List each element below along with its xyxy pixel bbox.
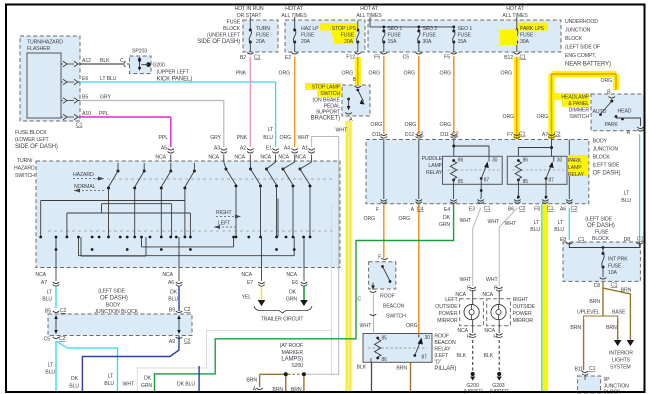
- svg-text:C2: C2: [519, 206, 526, 212]
- svg-text:ORG: ORG: [364, 216, 376, 222]
- svg-text:LT BLU: LT BLU: [100, 76, 117, 82]
- svg-text:OF DASH): OF DASH): [587, 223, 615, 229]
- svg-text:BRACKET): BRACKET): [311, 116, 340, 122]
- svg-text:30: 30: [557, 158, 563, 164]
- svg-text:C8: C8: [594, 283, 601, 289]
- svg-text:LAMP: LAMP: [568, 165, 582, 171]
- svg-text:NCA: NCA: [286, 272, 297, 278]
- svg-text:F5: F5: [374, 55, 380, 61]
- svg-text:PILLAR): PILLAR): [434, 366, 456, 372]
- svg-text:GRN: GRN: [439, 222, 451, 228]
- svg-text:MIRROR: MIRROR: [437, 318, 458, 324]
- svg-text:LT: LT: [558, 220, 564, 226]
- svg-text:FUSE: FUSE: [301, 33, 315, 39]
- svg-text:15A: 15A: [388, 39, 398, 45]
- svg-text:BRN: BRN: [246, 378, 257, 384]
- svg-text:PARK: PARK: [605, 122, 619, 128]
- svg-text:LT: LT: [108, 374, 114, 380]
- svg-text:LT: LT: [48, 363, 54, 369]
- svg-text:DK: DK: [289, 290, 297, 296]
- svg-text:BEACON: BEACON: [383, 304, 405, 310]
- svg-text:E6: E6: [82, 76, 88, 82]
- svg-text:LT: LT: [534, 220, 540, 226]
- svg-text:ALL TIMES: ALL TIMES: [356, 13, 382, 19]
- svg-text:F: F: [494, 286, 497, 292]
- svg-text:SEO 2: SEO 2: [423, 26, 438, 32]
- svg-text:B2: B2: [240, 55, 246, 61]
- svg-text:TURN/HAZARD: TURN/HAZARD: [27, 40, 63, 46]
- svg-text:ORG: ORG: [405, 122, 417, 128]
- svg-text:C1: C1: [578, 237, 585, 243]
- svg-text:D12: D12: [405, 132, 414, 138]
- svg-text:G200: G200: [153, 63, 165, 69]
- svg-text:A1: A1: [302, 146, 308, 152]
- svg-text:HAZ LP: HAZ LP: [301, 26, 319, 32]
- svg-text:FLASHER: FLASHER: [27, 46, 50, 52]
- svg-text:E2: E2: [285, 55, 291, 61]
- svg-text:ALL TIMES: ALL TIMES: [281, 13, 307, 19]
- svg-text:ALL TIMES: ALL TIMES: [502, 13, 528, 19]
- svg-text:TURN/: TURN/: [17, 158, 33, 164]
- svg-text:BLOCK: BLOCK: [593, 155, 611, 161]
- svg-text:FUSE BLOCK: FUSE BLOCK: [15, 130, 47, 136]
- svg-text:AUTO: AUTO: [593, 109, 607, 115]
- svg-text:B5: B5: [82, 95, 88, 101]
- svg-text:E6: E6: [292, 280, 298, 286]
- svg-text:HOT IN RUN: HOT IN RUN: [235, 6, 264, 12]
- svg-text:HEADLAMP: HEADLAMP: [561, 95, 589, 101]
- svg-text:C1: C1: [520, 55, 527, 61]
- svg-text:E3: E3: [469, 207, 475, 213]
- svg-text:NCA: NCA: [155, 155, 166, 161]
- svg-text:NCA: NCA: [295, 155, 306, 161]
- svg-text:FUSE: FUSE: [388, 33, 402, 39]
- svg-text:10A: 10A: [608, 270, 618, 276]
- svg-text:B9: B9: [169, 308, 175, 314]
- svg-text:ORG: ORG: [279, 71, 291, 77]
- svg-text:E1: E1: [266, 146, 272, 152]
- svg-text:UNDERHOOD: UNDERHOOD: [565, 19, 598, 25]
- svg-text:30A: 30A: [423, 39, 433, 45]
- svg-text:D11: D11: [440, 132, 449, 138]
- svg-text:B6: B6: [508, 207, 514, 213]
- svg-text:(LEFT SIDE: (LEFT SIDE: [585, 217, 612, 223]
- svg-text:A3: A3: [214, 146, 220, 152]
- svg-text:C2: C2: [554, 132, 561, 138]
- svg-text:GRN: GRN: [141, 383, 153, 389]
- svg-text:HOT AT: HOT AT: [285, 6, 303, 12]
- svg-text:85: 85: [458, 179, 464, 185]
- svg-text:RIGHT: RIGHT: [216, 210, 232, 216]
- svg-text:GRN: GRN: [286, 297, 298, 303]
- svg-text:SWITCH: SWITCH: [386, 314, 406, 320]
- svg-text:NEAR BATTERY): NEAR BATTERY): [565, 62, 611, 68]
- svg-text:C2: C2: [571, 206, 578, 212]
- svg-text:I/P: I/P: [604, 377, 611, 383]
- svg-text:LT: LT: [624, 191, 630, 197]
- svg-text:BLU: BLU: [168, 297, 178, 303]
- svg-text:RELAY: RELAY: [426, 170, 443, 176]
- svg-text:E4: E4: [444, 207, 450, 213]
- svg-text:BLOCK: BLOCK: [565, 36, 583, 42]
- svg-text:H: H: [493, 334, 497, 340]
- svg-text:SIDE OF DASH): SIDE OF DASH): [15, 144, 58, 150]
- svg-text:WHT: WHT: [460, 277, 472, 283]
- svg-text:RIGHT: RIGHT: [513, 297, 529, 303]
- svg-text:20A: 20A: [301, 39, 311, 45]
- svg-text:OUTSIDE: OUTSIDE: [513, 304, 536, 310]
- svg-text:C1: C1: [519, 132, 526, 138]
- svg-text:BRN: BRN: [396, 366, 407, 372]
- svg-text:WHT: WHT: [488, 219, 500, 225]
- svg-text:NCA: NCA: [278, 155, 289, 161]
- svg-text:A2: A2: [240, 146, 246, 152]
- svg-text:SWITCH: SWITCH: [320, 91, 340, 97]
- svg-text:NCA: NCA: [482, 292, 493, 298]
- svg-text:87: 87: [484, 178, 490, 184]
- svg-text:20A: 20A: [344, 39, 354, 45]
- svg-text:F7: F7: [507, 132, 513, 138]
- svg-text:(LEFT SIDE: (LEFT SIDE: [593, 163, 620, 169]
- svg-text:FUSE: FUSE: [256, 33, 270, 39]
- svg-text:C1: C1: [637, 237, 644, 243]
- svg-text:ORG: ORG: [537, 114, 549, 120]
- svg-text:HAZARD: HAZARD: [14, 166, 35, 172]
- svg-text:ENG COMPT,: ENG COMPT,: [565, 53, 596, 59]
- svg-text:ROOF: ROOF: [380, 294, 395, 300]
- svg-text:(UPPER LEFT: (UPPER LEFT: [157, 70, 190, 76]
- svg-text:HAZARD: HAZARD: [73, 172, 94, 178]
- svg-text:B11: B11: [575, 367, 584, 373]
- svg-text:HOT AT: HOT AT: [360, 6, 378, 12]
- svg-text:NCA: NCA: [162, 272, 173, 278]
- svg-text:F: F: [467, 286, 470, 292]
- svg-text:(LEFT SIDE OF: (LEFT SIDE OF: [565, 45, 600, 51]
- svg-text:BLU: BLU: [621, 198, 631, 204]
- svg-text:(LOWER LEFT: (LOWER LEFT: [15, 137, 50, 143]
- svg-text:RELAY: RELAY: [434, 347, 451, 353]
- svg-text:SWITCH: SWITCH: [569, 114, 589, 120]
- svg-text:BLU: BLU: [104, 381, 114, 387]
- svg-text:F5: F5: [444, 55, 450, 61]
- svg-text:NCA: NCA: [208, 155, 219, 161]
- svg-text:A6: A6: [168, 280, 174, 286]
- svg-text:PUDDLE: PUDDLE: [422, 156, 443, 162]
- svg-text:87: 87: [422, 355, 428, 361]
- svg-text:RELAY: RELAY: [568, 172, 585, 178]
- svg-text:PARK LPS: PARK LPS: [520, 26, 545, 32]
- svg-text:& PANEL: & PANEL: [568, 101, 589, 107]
- svg-text:ORG: ORG: [440, 122, 452, 128]
- svg-text:BEACON: BEACON: [434, 340, 456, 346]
- svg-text:WHT: WHT: [123, 382, 135, 388]
- svg-text:“D”: “D”: [434, 360, 441, 366]
- svg-text:BLOCK: BLOCK: [223, 26, 241, 32]
- svg-text:A10: A10: [82, 111, 91, 117]
- svg-text:BLU: BLU: [42, 297, 52, 303]
- svg-text:ORG: ORG: [501, 71, 513, 77]
- svg-text:WHT: WHT: [460, 218, 472, 224]
- svg-text:(AT ROOF: (AT ROOF: [280, 343, 303, 349]
- svg-text:A12: A12: [82, 58, 91, 64]
- svg-text:C5: C5: [403, 55, 410, 61]
- svg-text:A7: A7: [542, 132, 548, 138]
- svg-text:C2: C2: [417, 132, 424, 138]
- svg-text:SWITCH: SWITCH: [15, 173, 35, 179]
- svg-text:BLK: BLK: [484, 353, 494, 359]
- svg-text:LT: LT: [47, 290, 53, 296]
- svg-text:NCA: NCA: [260, 155, 271, 161]
- svg-text:E8: E8: [560, 237, 566, 243]
- svg-text:BLU: BLU: [263, 135, 273, 141]
- svg-text:H: H: [467, 334, 471, 340]
- svg-text:BODY: BODY: [106, 303, 121, 309]
- svg-text:INTERIOR: INTERIOR: [609, 351, 633, 357]
- svg-text:TURN: TURN: [256, 26, 270, 32]
- svg-text:S200: S200: [291, 363, 303, 369]
- svg-text:DK: DK: [170, 290, 178, 296]
- svg-text:BASE: BASE: [612, 310, 626, 316]
- svg-text:GRY: GRY: [210, 135, 221, 141]
- svg-text:30: 30: [425, 335, 431, 341]
- svg-text:BLU: BLU: [554, 227, 564, 233]
- svg-text:INT PRK: INT PRK: [608, 257, 628, 263]
- svg-text:OUTSIDE: OUTSIDE: [435, 304, 458, 310]
- svg-text:A5: A5: [161, 146, 167, 152]
- svg-text:BRN: BRN: [606, 325, 617, 331]
- svg-text:(UNDER LEFT: (UNDER LEFT: [207, 33, 241, 39]
- svg-text:WHT: WHT: [298, 135, 310, 141]
- svg-text:C1: C1: [254, 55, 261, 61]
- svg-text:DIMMER: DIMMER: [569, 108, 590, 114]
- svg-text:FUSE: FUSE: [608, 264, 622, 270]
- svg-text:POWER: POWER: [439, 311, 458, 317]
- svg-text:FUSE: FUSE: [520, 33, 534, 39]
- svg-text:BLK: BLK: [357, 365, 367, 371]
- svg-text:STOP LPS: STOP LPS: [332, 26, 357, 32]
- svg-text:NORMAL: NORMAL: [74, 184, 96, 190]
- svg-text:ROOF: ROOF: [434, 334, 449, 340]
- svg-text:DK: DK: [71, 376, 79, 382]
- svg-text:HEAD: HEAD: [618, 109, 632, 115]
- svg-text:BODY: BODY: [593, 139, 608, 145]
- svg-text:SYSTEM: SYSTEM: [610, 365, 631, 371]
- svg-text:SIDE OF DASH): SIDE OF DASH): [197, 39, 240, 45]
- svg-text:WHT: WHT: [336, 128, 348, 134]
- svg-text:DK BLU: DK BLU: [177, 382, 195, 388]
- svg-text:FUSE: FUSE: [595, 230, 609, 236]
- svg-text:FUSE: FUSE: [227, 20, 241, 26]
- svg-text:(LEFT SIDE: (LEFT SIDE: [98, 289, 125, 295]
- svg-text:LEFT: LEFT: [445, 297, 458, 303]
- svg-text:BRN: BRN: [570, 325, 581, 331]
- svg-text:ORG: ORG: [369, 71, 381, 77]
- svg-text:PNK: PNK: [236, 71, 247, 77]
- svg-text:ORG: ORG: [440, 71, 452, 77]
- svg-text:NCA: NCA: [35, 272, 46, 278]
- svg-text:OF DASH): OF DASH): [593, 171, 621, 177]
- svg-text:LAMP: LAMP: [428, 163, 442, 169]
- svg-text:YEL: YEL: [242, 295, 252, 301]
- svg-text:C2: C2: [184, 307, 191, 313]
- svg-text:FUSE: FUSE: [458, 33, 472, 39]
- svg-text:SEO 1: SEO 1: [458, 26, 473, 32]
- svg-text:POWER: POWER: [513, 311, 532, 317]
- svg-text:WHT: WHT: [486, 277, 498, 283]
- svg-text:WHT: WHT: [505, 221, 517, 227]
- svg-text:ORG: ORG: [406, 323, 418, 329]
- svg-text:ORG: ORG: [503, 114, 515, 120]
- svg-text:C5: C5: [44, 337, 51, 343]
- svg-text:OF DASH): OF DASH): [100, 296, 128, 302]
- svg-text:A9: A9: [169, 339, 175, 345]
- svg-text:SEO 1: SEO 1: [388, 26, 403, 32]
- svg-text:JUNCTION: JUNCTION: [565, 28, 591, 34]
- svg-text:C2: C2: [60, 308, 67, 314]
- svg-text:A6: A6: [560, 207, 566, 213]
- svg-text:LAMPS): LAMPS): [281, 357, 303, 363]
- svg-text:OR START: OR START: [237, 13, 263, 19]
- svg-text:PPL: PPL: [159, 135, 169, 141]
- svg-text:GRY: GRY: [100, 95, 111, 101]
- svg-text:ORG: ORG: [280, 135, 292, 141]
- svg-text:LT: LT: [268, 127, 274, 133]
- svg-text:KICK PANEL): KICK PANEL): [157, 77, 193, 83]
- svg-text:C2: C2: [59, 336, 66, 342]
- svg-text:ORG: ORG: [342, 71, 354, 77]
- svg-text:JUNCTION BLOCK: JUNCTION BLOCK: [94, 309, 138, 315]
- svg-text:STOP LAMP: STOP LAMP: [312, 85, 341, 91]
- svg-text:BRN: BRN: [621, 288, 632, 294]
- svg-text:C1: C1: [484, 206, 491, 212]
- svg-text:TRAILER CIRCUIT: TRAILER CIRCUIT: [261, 317, 305, 323]
- svg-text:UPLEVEL: UPLEVEL: [577, 310, 600, 316]
- svg-text:BLOCK: BLOCK: [592, 236, 610, 242]
- svg-text:ORG: ORG: [404, 71, 416, 77]
- svg-text:F: F: [378, 255, 381, 261]
- svg-text:30: 30: [492, 158, 498, 164]
- svg-text:86: 86: [523, 158, 529, 164]
- svg-text:F: F: [376, 207, 379, 213]
- svg-text:D8: D8: [624, 237, 631, 243]
- svg-text:WHT: WHT: [360, 323, 372, 329]
- svg-text:BLK: BLK: [457, 353, 467, 359]
- svg-text:20A: 20A: [256, 39, 266, 45]
- svg-text:LIGHTS: LIGHTS: [612, 358, 631, 364]
- svg-text:DK: DK: [443, 215, 451, 221]
- svg-text:JUNCTION: JUNCTION: [593, 147, 619, 153]
- svg-text:C: C: [120, 58, 124, 64]
- svg-text:86: 86: [458, 158, 464, 164]
- svg-text:ORG: ORG: [399, 216, 411, 222]
- svg-text:NCA: NCA: [234, 155, 245, 161]
- svg-text:MIRROR: MIRROR: [513, 318, 534, 324]
- svg-text:15A: 15A: [458, 39, 468, 45]
- svg-text:BLK: BLK: [100, 58, 110, 64]
- svg-text:BLU: BLU: [530, 227, 540, 233]
- svg-text:DK: DK: [144, 376, 152, 382]
- svg-text:PARK: PARK: [568, 158, 582, 164]
- svg-text:B5: B5: [45, 309, 51, 315]
- svg-text:C1: C1: [76, 123, 83, 129]
- svg-text:ORG: ORG: [371, 122, 383, 128]
- svg-text:A7: A7: [41, 280, 47, 286]
- svg-text:B12: B12: [504, 55, 513, 61]
- svg-text:C4: C4: [417, 207, 424, 213]
- svg-text:ORG: ORG: [601, 78, 613, 84]
- svg-text:C2: C2: [184, 339, 191, 345]
- svg-text:HOT AT: HOT AT: [506, 6, 524, 12]
- svg-text:PPL: PPL: [99, 111, 109, 117]
- svg-text:MARKER: MARKER: [282, 350, 304, 356]
- svg-text:FUSE: FUSE: [341, 33, 355, 39]
- svg-text:87: 87: [549, 178, 555, 184]
- svg-text:F12: F12: [346, 55, 355, 61]
- svg-text:E7: E7: [247, 280, 253, 286]
- svg-text:PNK: PNK: [237, 135, 248, 141]
- svg-text:A4: A4: [284, 146, 290, 152]
- svg-text:D11: D11: [372, 132, 381, 138]
- svg-text:FUSE: FUSE: [423, 33, 437, 39]
- svg-text:C: C: [357, 297, 361, 303]
- svg-text:85: 85: [523, 179, 529, 185]
- svg-text:BLU: BLU: [45, 370, 55, 376]
- svg-text:BLU: BLU: [69, 384, 79, 390]
- svg-text:C1: C1: [611, 283, 618, 289]
- svg-text:SP203: SP203: [132, 49, 147, 55]
- svg-text:85: 85: [382, 336, 388, 342]
- svg-text:C1: C1: [589, 366, 596, 372]
- svg-text:30A: 30A: [520, 39, 530, 45]
- svg-text:BRN: BRN: [589, 299, 600, 305]
- svg-text:86: 86: [382, 357, 388, 363]
- svg-text:NCA: NCA: [241, 272, 252, 278]
- svg-text:C1: C1: [547, 206, 554, 212]
- svg-text:(LEFT: (LEFT: [434, 353, 449, 359]
- svg-text:C2: C2: [452, 132, 459, 138]
- svg-text:F8: F8: [534, 207, 540, 213]
